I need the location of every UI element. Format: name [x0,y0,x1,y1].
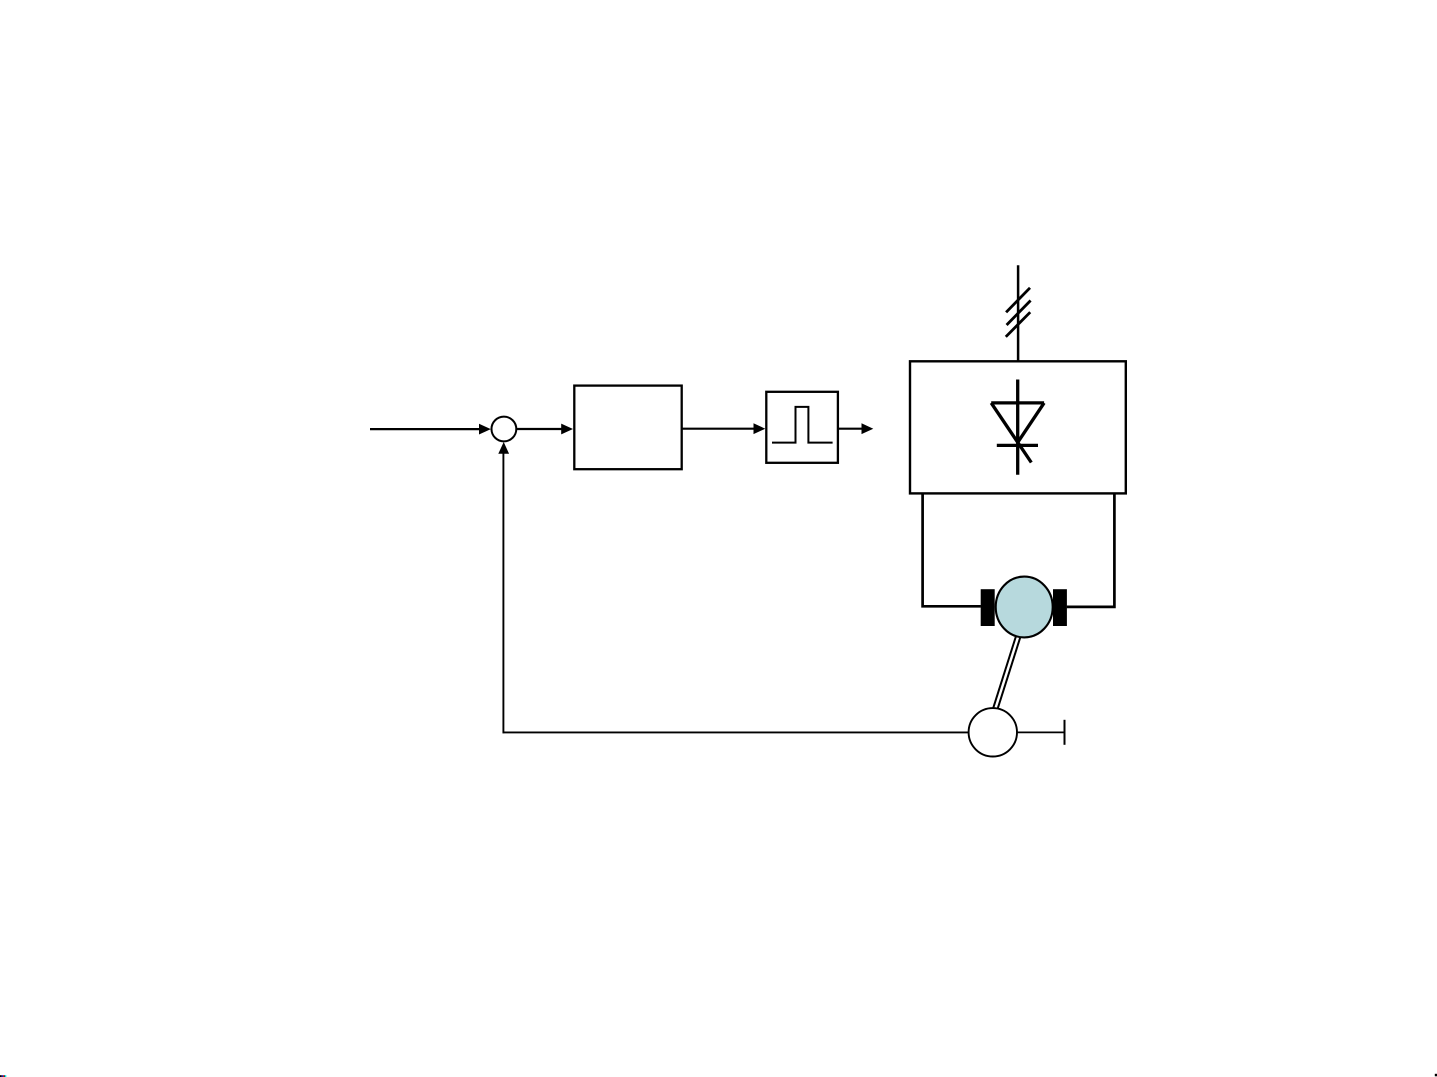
arrowhead into controller [561,424,573,435]
pulse waveform symbol [772,407,833,443]
three-phase supply line [1017,265,1020,361]
wire converter left leg [923,493,981,606]
motor brush left [981,589,995,626]
arrowhead into summing junction [479,424,491,435]
feedback wire horizontal [503,731,969,733]
thyristor converter block [910,361,1126,493]
supply slash 3 [1006,312,1030,337]
pulse generator block (firing unit) [766,392,838,463]
thyristor triangle left side + gate [991,403,1031,463]
arrowhead into pulse unit [754,423,766,434]
thyristor symbol vertical line [1016,380,1019,475]
motor shaft line A [997,635,1021,712]
summing junction [492,417,517,442]
arrowhead output toward converter [862,423,874,434]
motor shaft line B [993,633,1017,710]
tacho stub end tick [1064,720,1066,745]
supply slash 2 [1007,301,1031,326]
wire input setpoint [370,428,481,430]
wire converter right leg [1067,493,1115,607]
wire pulse unit output [838,428,863,430]
wire summing junction to controller [516,428,562,430]
thyristor triangle top bar [991,401,1044,404]
tacho stub wire right [1017,731,1065,733]
motor armature [996,577,1053,638]
thyristor cathode bar [997,444,1038,447]
bottom-left corner artifact [0,1075,6,1077]
bottom-right corner artifact [1435,1074,1437,1077]
motor brush right [1053,589,1067,626]
feedback wire vertical [502,453,504,734]
tachogenerator [969,708,1017,756]
controller block [574,386,681,470]
thyristor triangle right side [1018,403,1044,443]
wire controller to pulse unit [682,428,755,430]
supply slash 1 [1006,288,1030,313]
arrowhead feedback into summing junction [498,442,509,454]
